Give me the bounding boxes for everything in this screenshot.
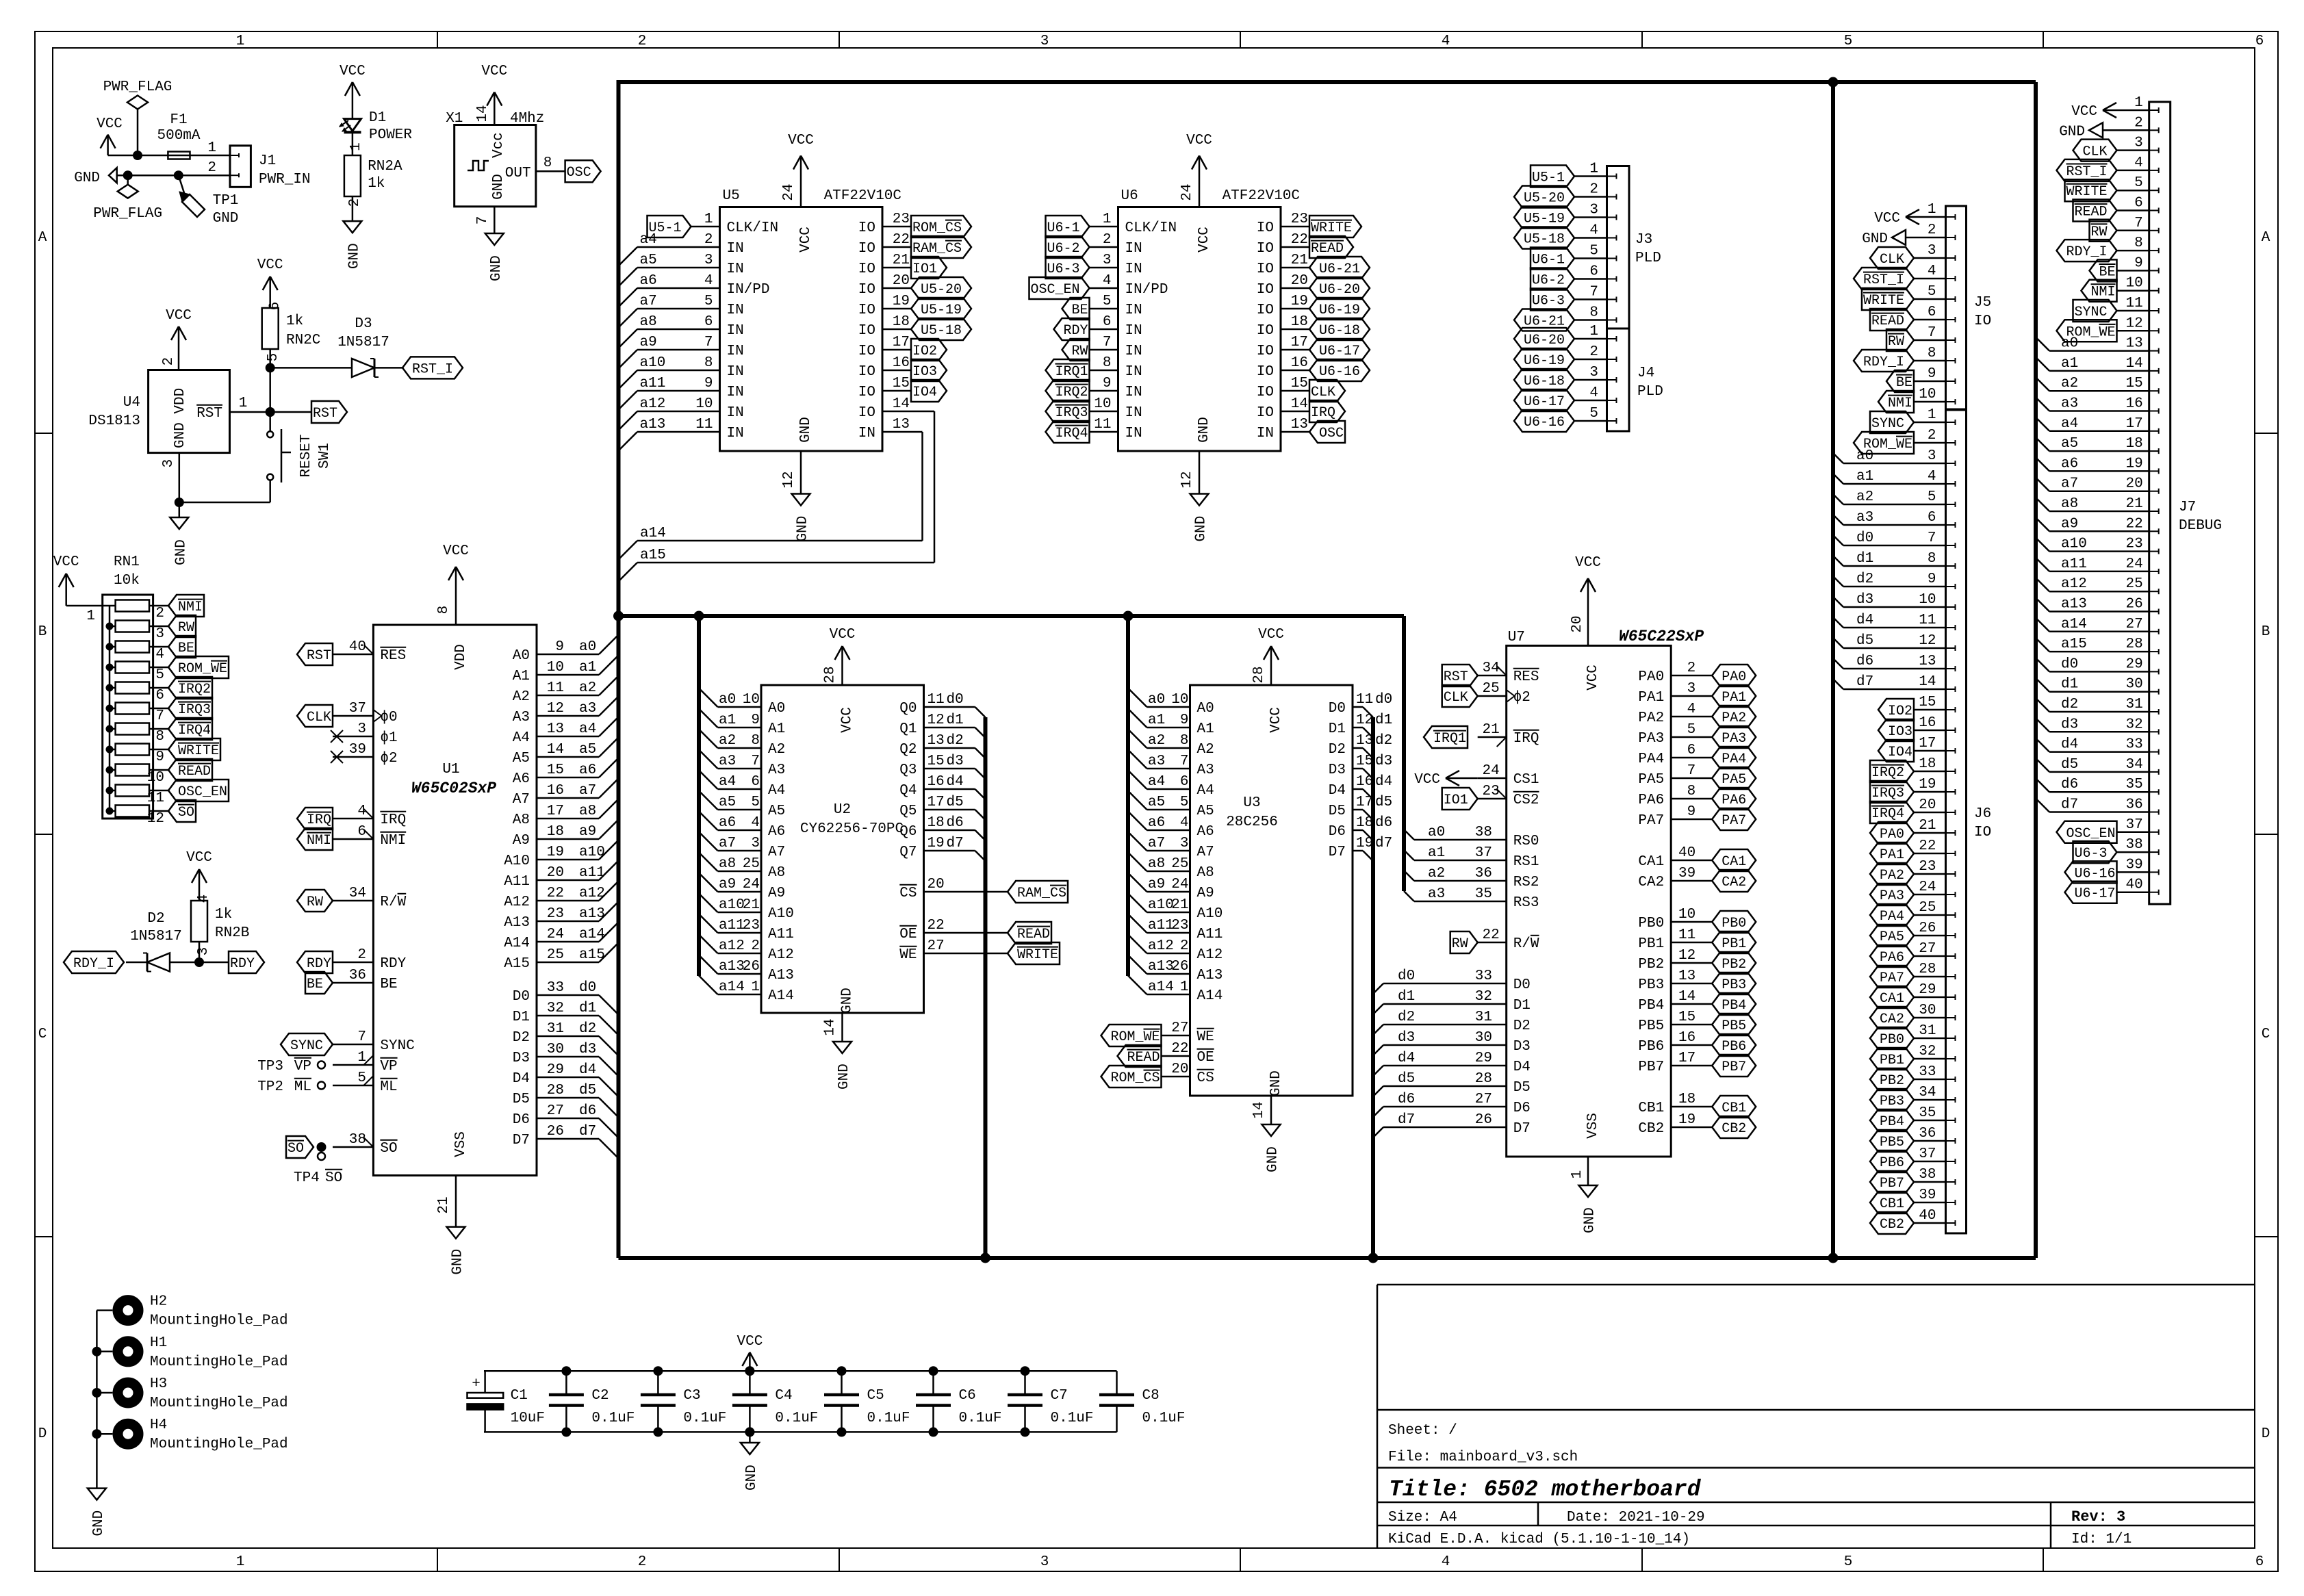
svg-text:1: 1 xyxy=(207,140,216,156)
svg-text:IO: IO xyxy=(858,323,875,339)
svg-text:IO: IO xyxy=(1257,405,1274,421)
svg-text:26: 26 xyxy=(743,959,760,975)
svg-text:RW: RW xyxy=(1452,936,1468,952)
svg-text:U6-16: U6-16 xyxy=(1524,415,1565,430)
svg-text:IN: IN xyxy=(1125,344,1142,359)
svg-text:5: 5 xyxy=(1103,294,1112,309)
svg-text:5: 5 xyxy=(1928,489,1936,505)
svg-text:PB5: PB5 xyxy=(1638,1018,1664,1034)
svg-text:PB0: PB0 xyxy=(1880,1032,1904,1048)
svg-text:U2: U2 xyxy=(834,802,851,818)
svg-text:4: 4 xyxy=(1180,815,1189,831)
svg-text:8: 8 xyxy=(2134,235,2143,251)
svg-text:5: 5 xyxy=(1687,722,1696,738)
svg-text:14: 14 xyxy=(893,396,910,412)
svg-text:31: 31 xyxy=(2125,697,2142,712)
svg-text:VCC: VCC xyxy=(2071,104,2097,120)
svg-text:32: 32 xyxy=(2125,717,2142,732)
svg-text:D4: D4 xyxy=(1513,1059,1531,1075)
svg-text:18: 18 xyxy=(1919,756,1936,772)
svg-text:d2: d2 xyxy=(1375,733,1392,749)
svg-text:15: 15 xyxy=(1291,376,1308,391)
svg-text:d6: d6 xyxy=(1375,815,1392,831)
svg-text:OE: OE xyxy=(1197,1050,1214,1066)
svg-text:3: 3 xyxy=(1928,448,1936,464)
svg-text:7: 7 xyxy=(1928,530,1936,546)
svg-text:CLK/IN: CLK/IN xyxy=(727,220,779,236)
svg-text:ϕ1: ϕ1 xyxy=(380,730,397,746)
svg-text:RAM_CS: RAM_CS xyxy=(1017,886,1066,901)
svg-text:d5: d5 xyxy=(1398,1071,1415,1087)
svg-text:PB0: PB0 xyxy=(1721,916,1746,931)
svg-text:15: 15 xyxy=(547,762,564,778)
svg-text:32: 32 xyxy=(1475,989,1492,1005)
svg-text:7: 7 xyxy=(155,708,164,724)
svg-text:CB2: CB2 xyxy=(1638,1121,1664,1137)
svg-text:1: 1 xyxy=(1570,1170,1585,1179)
svg-text:D3: D3 xyxy=(513,1051,530,1066)
svg-text:D4: D4 xyxy=(1329,783,1346,799)
svg-text:d5: d5 xyxy=(1856,633,1873,649)
svg-text:a3: a3 xyxy=(1428,886,1445,902)
svg-text:40: 40 xyxy=(2125,877,2142,893)
svg-text:18: 18 xyxy=(2125,436,2142,452)
svg-text:38: 38 xyxy=(2125,837,2142,853)
svg-text:PA4: PA4 xyxy=(1721,751,1746,767)
svg-text:J6: J6 xyxy=(1974,806,1991,822)
svg-text:d4: d4 xyxy=(579,1062,596,1078)
svg-text:WRITE: WRITE xyxy=(1311,220,1352,236)
svg-text:a7: a7 xyxy=(1148,836,1165,851)
svg-text:11: 11 xyxy=(1094,417,1111,433)
svg-text:J7: J7 xyxy=(2179,500,2196,515)
svg-text:PA2: PA2 xyxy=(1638,710,1664,726)
svg-text:35: 35 xyxy=(1919,1105,1936,1121)
svg-text:d0: d0 xyxy=(579,980,596,996)
svg-text:A14: A14 xyxy=(768,988,794,1004)
svg-text:2: 2 xyxy=(347,198,363,207)
svg-text:GND VDD: GND VDD xyxy=(172,388,188,448)
svg-text:D2: D2 xyxy=(147,911,164,927)
svg-text:12: 12 xyxy=(1356,712,1373,728)
svg-text:d3: d3 xyxy=(947,754,964,769)
svg-text:a13: a13 xyxy=(719,959,745,975)
svg-text:5: 5 xyxy=(1589,244,1598,259)
svg-text:d5: d5 xyxy=(947,795,964,810)
svg-text:a8: a8 xyxy=(2061,496,2078,512)
svg-text:CLK/IN: CLK/IN xyxy=(1125,220,1177,236)
svg-text:A10: A10 xyxy=(1197,906,1223,922)
svg-text:GND: GND xyxy=(346,243,362,269)
svg-text:PA7: PA7 xyxy=(1880,970,1904,986)
svg-text:24: 24 xyxy=(781,183,797,201)
svg-text:a1: a1 xyxy=(1856,469,1873,485)
svg-text:GND: GND xyxy=(1196,417,1212,443)
svg-text:PB7: PB7 xyxy=(1721,1059,1746,1075)
svg-text:d7: d7 xyxy=(2061,797,2078,813)
svg-text:IN: IN xyxy=(727,303,744,318)
svg-text:25: 25 xyxy=(1482,681,1499,697)
svg-text:12: 12 xyxy=(1179,471,1195,488)
svg-text:10: 10 xyxy=(1919,592,1936,608)
svg-text:a15: a15 xyxy=(2061,636,2087,652)
svg-text:3: 3 xyxy=(155,626,164,642)
svg-text:GND: GND xyxy=(213,211,239,227)
svg-text:IO: IO xyxy=(858,385,875,400)
svg-text:IO: IO xyxy=(1257,241,1274,257)
svg-text:IN: IN xyxy=(727,344,744,359)
svg-text:3: 3 xyxy=(1589,203,1598,218)
svg-text:a3: a3 xyxy=(1856,510,1873,526)
svg-text:VCC: VCC xyxy=(788,133,814,149)
svg-text:RW: RW xyxy=(2091,224,2108,240)
svg-text:24: 24 xyxy=(1482,763,1499,779)
svg-text:27: 27 xyxy=(1475,1092,1492,1107)
svg-text:GND: GND xyxy=(91,1510,107,1536)
svg-text:BE: BE xyxy=(380,977,397,992)
svg-text:28C256: 28C256 xyxy=(1226,814,1278,830)
svg-text:39: 39 xyxy=(1919,1187,1936,1203)
svg-text:PB1: PB1 xyxy=(1880,1053,1904,1068)
svg-text:7: 7 xyxy=(1589,285,1598,300)
svg-text:Q6: Q6 xyxy=(899,824,917,840)
svg-text:4: 4 xyxy=(1442,1554,1450,1570)
svg-text:9: 9 xyxy=(1687,804,1696,820)
svg-text:VCC: VCC xyxy=(1196,227,1212,253)
svg-text:CA2: CA2 xyxy=(1880,1012,1904,1027)
svg-text:9: 9 xyxy=(1928,366,1936,382)
svg-text:H1: H1 xyxy=(150,1335,167,1351)
svg-text:PA0: PA0 xyxy=(1638,669,1664,685)
svg-text:a7: a7 xyxy=(719,836,736,851)
svg-text:a2: a2 xyxy=(1428,866,1445,881)
svg-text:PA5: PA5 xyxy=(1638,772,1664,788)
svg-text:1N5817: 1N5817 xyxy=(130,929,182,944)
svg-text:a9: a9 xyxy=(719,877,736,892)
svg-text:ATF22V10C: ATF22V10C xyxy=(1223,188,1300,204)
svg-text:U6-16: U6-16 xyxy=(1319,364,1360,380)
svg-text:4: 4 xyxy=(196,894,212,903)
svg-text:21: 21 xyxy=(1919,818,1936,834)
svg-text:A13: A13 xyxy=(504,915,530,931)
svg-text:32: 32 xyxy=(547,1001,564,1016)
svg-text:Rev: 3: Rev: 3 xyxy=(2071,1508,2125,1526)
svg-text:VCC: VCC xyxy=(1258,627,1284,643)
svg-text:A12: A12 xyxy=(1197,947,1223,963)
svg-text:RES: RES xyxy=(380,648,406,664)
svg-text:3: 3 xyxy=(704,253,713,268)
svg-text:38: 38 xyxy=(1475,825,1492,840)
svg-text:CA2: CA2 xyxy=(1721,875,1746,890)
svg-text:37: 37 xyxy=(1475,845,1492,861)
svg-text:a15: a15 xyxy=(579,947,605,963)
svg-text:5: 5 xyxy=(751,795,760,810)
svg-text:4: 4 xyxy=(2134,155,2143,171)
svg-text:Vcc: Vcc xyxy=(491,132,507,158)
svg-text:IN: IN xyxy=(727,405,744,421)
svg-text:29: 29 xyxy=(1475,1051,1492,1066)
svg-text:IO3: IO3 xyxy=(912,364,937,380)
svg-text:d7: d7 xyxy=(1375,836,1392,851)
svg-text:10uF: 10uF xyxy=(511,1411,545,1426)
svg-text:34: 34 xyxy=(2125,757,2142,773)
svg-text:33: 33 xyxy=(2125,737,2142,753)
svg-text:VCC: VCC xyxy=(1414,772,1440,788)
svg-text:a13: a13 xyxy=(2061,597,2087,613)
svg-text:ROM_CS: ROM_CS xyxy=(912,220,962,236)
svg-text:28: 28 xyxy=(2125,636,2142,652)
svg-text:3: 3 xyxy=(357,721,366,737)
svg-text:ROM_CS: ROM_CS xyxy=(1111,1070,1160,1086)
svg-text:9: 9 xyxy=(1103,376,1112,391)
svg-text:READ: READ xyxy=(178,764,211,780)
svg-text:CA2: CA2 xyxy=(1638,875,1664,890)
svg-text:6: 6 xyxy=(357,824,366,840)
svg-text:PA2: PA2 xyxy=(1880,868,1904,884)
svg-text:d1: d1 xyxy=(2061,677,2078,693)
svg-text:11: 11 xyxy=(1678,927,1695,943)
svg-text:IO3: IO3 xyxy=(1888,724,1912,740)
svg-text:IO1: IO1 xyxy=(912,261,937,277)
svg-text:4: 4 xyxy=(357,803,366,819)
svg-text:d4: d4 xyxy=(1856,613,1873,628)
svg-text:SYNC: SYNC xyxy=(380,1038,414,1054)
svg-text:12: 12 xyxy=(147,811,164,827)
svg-text:IN: IN xyxy=(1257,426,1274,441)
svg-text:IO: IO xyxy=(1257,364,1274,380)
svg-text:4Mhz: 4Mhz xyxy=(510,111,544,127)
svg-text:IO: IO xyxy=(858,261,875,277)
svg-text:11: 11 xyxy=(1919,613,1936,628)
svg-text:SO: SO xyxy=(287,1141,304,1157)
svg-text:a2: a2 xyxy=(579,680,596,696)
svg-text:16: 16 xyxy=(927,774,945,790)
svg-text:U3: U3 xyxy=(1243,795,1260,811)
svg-text:D1: D1 xyxy=(1513,998,1531,1014)
svg-text:13: 13 xyxy=(2125,336,2142,352)
svg-text:2: 2 xyxy=(1928,428,1936,443)
svg-text:CLK: CLK xyxy=(2083,144,2108,160)
svg-text:14: 14 xyxy=(1291,396,1308,412)
svg-text:1: 1 xyxy=(1928,202,1936,218)
svg-text:VCC: VCC xyxy=(840,707,856,733)
svg-text:13: 13 xyxy=(1919,654,1936,669)
svg-text:a8: a8 xyxy=(579,803,596,819)
svg-text:a5: a5 xyxy=(640,253,657,268)
svg-text:3: 3 xyxy=(751,836,760,851)
svg-text:26: 26 xyxy=(2125,597,2142,613)
svg-text:IO: IO xyxy=(1257,344,1274,359)
svg-text:R/W: R/W xyxy=(380,894,406,910)
svg-text:30: 30 xyxy=(2125,677,2142,693)
svg-text:7: 7 xyxy=(1687,763,1696,779)
svg-text:U6-3: U6-3 xyxy=(2075,846,2108,862)
svg-text:IRQ: IRQ xyxy=(1311,405,1335,421)
svg-text:0.1uF: 0.1uF xyxy=(867,1411,910,1426)
svg-text:2: 2 xyxy=(357,947,366,963)
svg-text:29: 29 xyxy=(1919,982,1936,998)
svg-text:2: 2 xyxy=(751,938,760,954)
svg-text:GND: GND xyxy=(1266,1146,1281,1172)
svg-text:d7: d7 xyxy=(579,1124,596,1140)
svg-text:d4: d4 xyxy=(2061,737,2078,753)
svg-text:d6: d6 xyxy=(1398,1092,1415,1107)
svg-text:36: 36 xyxy=(2125,797,2142,813)
svg-text:1: 1 xyxy=(704,211,713,227)
svg-text:7: 7 xyxy=(1180,754,1189,769)
svg-text:a14: a14 xyxy=(640,526,666,541)
svg-text:29: 29 xyxy=(2125,656,2142,672)
svg-text:PA3: PA3 xyxy=(1880,888,1904,904)
svg-text:J5: J5 xyxy=(1974,295,1991,311)
svg-text:a1: a1 xyxy=(1428,845,1445,861)
svg-text:30: 30 xyxy=(1475,1030,1492,1046)
svg-text:PA6: PA6 xyxy=(1638,793,1664,808)
svg-text:A4: A4 xyxy=(1197,783,1214,799)
svg-text:12: 12 xyxy=(1919,633,1936,649)
svg-text:36: 36 xyxy=(1475,866,1492,881)
svg-text:4: 4 xyxy=(1928,263,1936,279)
svg-text:1: 1 xyxy=(348,142,364,151)
svg-text:SO: SO xyxy=(380,1141,397,1157)
svg-text:d2: d2 xyxy=(2061,697,2078,712)
svg-text:36: 36 xyxy=(349,968,366,983)
svg-text:d6: d6 xyxy=(2061,777,2078,793)
svg-text:RDY: RDY xyxy=(1064,323,1088,339)
svg-text:PA5: PA5 xyxy=(1880,929,1904,945)
svg-text:ϕ0: ϕ0 xyxy=(380,710,397,725)
svg-text:CLK: CLK xyxy=(1880,252,1904,268)
svg-text:RST: RST xyxy=(1444,669,1468,685)
svg-text:RST: RST xyxy=(196,406,222,422)
svg-text:GND: GND xyxy=(840,988,856,1014)
svg-text:GND: GND xyxy=(2059,124,2085,140)
svg-text:PA0: PA0 xyxy=(1721,669,1746,685)
svg-text:17: 17 xyxy=(1291,335,1308,350)
svg-text:25: 25 xyxy=(743,856,760,872)
svg-text:VCC: VCC xyxy=(1575,555,1601,571)
svg-text:6: 6 xyxy=(1103,314,1112,330)
svg-text:Id: 1/1: Id: 1/1 xyxy=(2071,1532,2132,1547)
svg-text:H4: H4 xyxy=(150,1417,167,1433)
svg-text:D2: D2 xyxy=(1513,1018,1531,1034)
svg-text:8: 8 xyxy=(1928,551,1936,567)
svg-text:22: 22 xyxy=(2125,516,2142,532)
svg-text:10k: 10k xyxy=(114,573,140,589)
svg-text:Q1: Q1 xyxy=(899,721,917,737)
svg-text:Q4: Q4 xyxy=(899,783,917,799)
svg-text:3: 3 xyxy=(196,947,212,956)
svg-text:U6-17: U6-17 xyxy=(2075,886,2116,902)
svg-text:11: 11 xyxy=(695,417,713,433)
svg-text:a5: a5 xyxy=(2061,436,2078,452)
svg-text:PB4: PB4 xyxy=(1638,998,1664,1014)
svg-text:4: 4 xyxy=(704,273,713,289)
svg-text:IRQ: IRQ xyxy=(1513,731,1539,747)
svg-text:d3: d3 xyxy=(1398,1030,1415,1046)
svg-text:U6-19: U6-19 xyxy=(1524,353,1565,369)
svg-text:PLD: PLD xyxy=(1635,250,1661,266)
svg-text:OSC_EN: OSC_EN xyxy=(2066,826,2116,842)
svg-text:A10: A10 xyxy=(768,906,794,922)
svg-text:14: 14 xyxy=(823,1018,839,1035)
svg-text:7: 7 xyxy=(1103,335,1112,350)
svg-text:16: 16 xyxy=(1291,355,1308,371)
svg-text:0.1uF: 0.1uF xyxy=(775,1411,818,1426)
svg-text:A2: A2 xyxy=(768,742,785,758)
svg-text:NMI: NMI xyxy=(178,600,203,615)
svg-text:GND: GND xyxy=(1583,1207,1598,1233)
svg-text:16: 16 xyxy=(1919,715,1936,731)
svg-text:34: 34 xyxy=(1482,660,1499,676)
svg-text:RN2C: RN2C xyxy=(286,333,320,348)
svg-text:C5: C5 xyxy=(867,1388,884,1404)
svg-text:CA1: CA1 xyxy=(1880,991,1904,1007)
svg-text:9: 9 xyxy=(704,376,713,391)
svg-text:VCC: VCC xyxy=(1268,707,1284,733)
svg-text:a6: a6 xyxy=(2061,456,2078,472)
svg-text:5: 5 xyxy=(1844,1554,1853,1570)
svg-text:VSS: VSS xyxy=(1585,1113,1601,1139)
svg-text:23: 23 xyxy=(1919,859,1936,875)
svg-text:18: 18 xyxy=(547,824,564,840)
svg-text:A9: A9 xyxy=(1197,886,1214,901)
svg-text:D0: D0 xyxy=(1329,701,1346,717)
svg-text:12: 12 xyxy=(547,701,564,717)
svg-text:12: 12 xyxy=(2125,316,2142,331)
svg-text:a10: a10 xyxy=(719,897,745,913)
svg-text:a1: a1 xyxy=(2061,356,2078,372)
svg-text:5: 5 xyxy=(1180,795,1189,810)
svg-text:A1: A1 xyxy=(513,669,530,684)
svg-text:1k: 1k xyxy=(286,313,303,329)
svg-text:d6: d6 xyxy=(579,1103,596,1119)
svg-text:D1: D1 xyxy=(513,1009,530,1025)
svg-text:a14: a14 xyxy=(2061,617,2087,632)
svg-text:26: 26 xyxy=(1919,921,1936,936)
svg-text:IO: IO xyxy=(858,344,875,359)
svg-text:A0: A0 xyxy=(768,701,785,717)
svg-text:PB2: PB2 xyxy=(1721,957,1746,973)
svg-text:23: 23 xyxy=(1482,784,1499,799)
svg-text:D4: D4 xyxy=(513,1071,530,1087)
svg-text:26: 26 xyxy=(1475,1112,1492,1128)
svg-text:OSC: OSC xyxy=(567,165,591,181)
svg-text:d5: d5 xyxy=(1375,795,1392,810)
svg-text:1k: 1k xyxy=(215,907,232,923)
svg-text:10: 10 xyxy=(1678,907,1695,923)
svg-text:CS: CS xyxy=(899,886,917,901)
svg-text:0.1uF: 0.1uF xyxy=(591,1411,635,1426)
svg-text:4: 4 xyxy=(1589,223,1598,239)
svg-text:DS1813: DS1813 xyxy=(88,413,140,429)
svg-text:33: 33 xyxy=(1919,1064,1936,1080)
svg-text:17: 17 xyxy=(1919,736,1936,751)
svg-text:U6-20: U6-20 xyxy=(1319,282,1360,298)
svg-text:D1: D1 xyxy=(369,110,386,126)
svg-text:a10: a10 xyxy=(2061,537,2087,552)
svg-text:3: 3 xyxy=(1928,243,1936,259)
svg-text:d3: d3 xyxy=(2061,717,2078,732)
svg-text:BE: BE xyxy=(1072,303,1088,318)
svg-text:11: 11 xyxy=(147,790,164,806)
svg-text:17: 17 xyxy=(1356,795,1373,810)
svg-text:GND: GND xyxy=(744,1465,760,1491)
svg-text:22: 22 xyxy=(1291,232,1308,248)
svg-text:2: 2 xyxy=(1589,344,1598,360)
svg-text:a11: a11 xyxy=(2061,556,2087,572)
svg-text:A1: A1 xyxy=(1197,721,1214,737)
